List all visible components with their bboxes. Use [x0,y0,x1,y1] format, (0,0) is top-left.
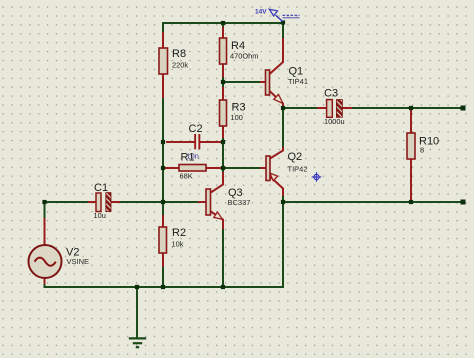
svg-text:10u: 10u [94,211,106,220]
svg-text:220k: 220k [172,61,188,70]
svg-text:R2: R2 [172,227,186,239]
svg-text:470Ohm: 470Ohm [230,52,258,61]
svg-text:R3: R3 [232,102,246,114]
svg-text:68K: 68K [180,172,193,181]
svg-text:10k: 10k [172,240,184,249]
svg-text:R4: R4 [231,40,245,52]
svg-text:Q2: Q2 [288,151,303,163]
svg-text:BC337: BC337 [228,198,251,207]
svg-text:TIP42: TIP42 [288,165,308,174]
svg-text:C1: C1 [94,182,108,194]
svg-text:R1: R1 [181,152,195,164]
svg-text:R8: R8 [172,48,186,60]
svg-text:Q1: Q1 [289,66,304,78]
svg-text:100: 100 [231,113,243,122]
svg-text:R10: R10 [419,136,439,148]
svg-text:TIP41: TIP41 [288,77,308,86]
svg-text:C2: C2 [189,123,203,135]
svg-text:Q3: Q3 [228,187,243,199]
svg-text:V2: V2 [66,247,79,259]
svg-text:14V: 14V [255,9,267,16]
svg-text:1000u: 1000u [324,117,345,126]
svg-text:C3: C3 [324,88,338,100]
